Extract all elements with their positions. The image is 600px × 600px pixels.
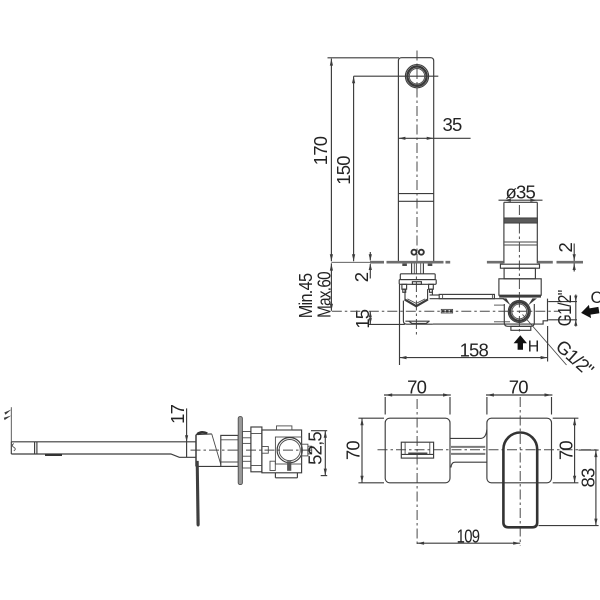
svg-text:17: 17 [167, 404, 188, 423]
svg-text:150: 150 [333, 156, 354, 185]
svg-text:70: 70 [556, 441, 577, 460]
svg-text:H: H [528, 339, 540, 356]
svg-text:170: 170 [310, 136, 331, 165]
svg-text:2: 2 [351, 272, 372, 282]
svg-text:15: 15 [352, 309, 373, 328]
svg-text:G1/2": G1/2" [555, 290, 576, 326]
svg-text:158: 158 [460, 340, 489, 361]
svg-text:70: 70 [509, 376, 528, 397]
svg-text:Max.60: Max.60 [314, 272, 335, 318]
svg-text:70: 70 [407, 376, 426, 397]
svg-text:83: 83 [578, 468, 599, 487]
svg-text:70: 70 [343, 441, 364, 460]
svg-text:109: 109 [457, 526, 480, 547]
svg-text:35: 35 [443, 114, 462, 135]
svg-text:ø35: ø35 [506, 182, 536, 203]
svg-text:52,5: 52,5 [305, 432, 326, 465]
svg-text:C: C [591, 289, 600, 307]
svg-text:Min.45: Min.45 [295, 274, 316, 319]
svg-text:2: 2 [555, 242, 576, 252]
